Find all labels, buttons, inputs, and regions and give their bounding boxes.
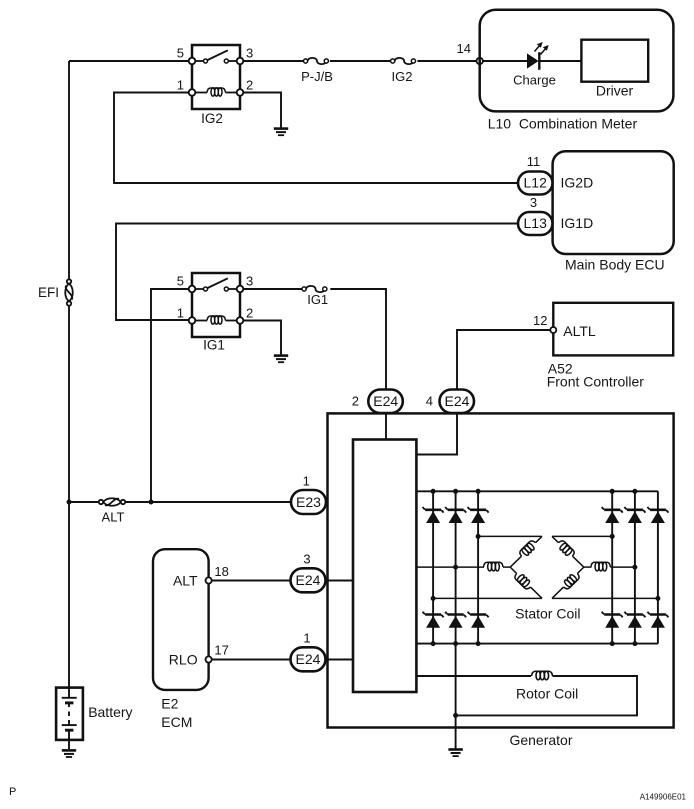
connector E23 xyxy=(291,490,326,514)
svg-text:12: 12 xyxy=(533,313,547,328)
pin 2 E24 xyxy=(352,394,359,409)
svg-text:Generator: Generator xyxy=(509,732,572,748)
wire E24 pin2 into regulator xyxy=(385,413,387,440)
wire diode column 3 left xyxy=(477,491,479,643)
pin 1 E24 lower xyxy=(303,631,310,646)
node bottom rail col1L xyxy=(431,641,436,646)
svg-text:E2: E2 xyxy=(161,696,178,712)
connector E24 pin4 xyxy=(440,390,475,414)
wire generator ground line xyxy=(455,644,457,749)
diode D6 top xyxy=(648,507,669,523)
label P-J/B xyxy=(301,69,333,84)
svg-text:IG1: IG1 xyxy=(203,338,225,353)
diode D3 top xyxy=(468,507,489,523)
wire phase rail upper left xyxy=(478,535,542,537)
svg-text:5: 5 xyxy=(177,274,184,289)
node 14 terminal xyxy=(477,58,483,64)
battery box xyxy=(56,688,83,740)
main body ECU box xyxy=(553,151,674,254)
wire A52 pin12 to E24 pin4 xyxy=(457,330,550,389)
node phase col2R xyxy=(632,565,637,570)
pin 18 xyxy=(214,564,228,579)
svg-text:A149906E01: A149906E01 xyxy=(640,793,687,802)
svg-text:Front Controller: Front Controller xyxy=(547,374,645,390)
stator coil right lower diagonal xyxy=(549,564,587,601)
label IG1D xyxy=(561,215,594,231)
wire phase rail lower right xyxy=(552,597,658,599)
wire ECM RLO to E24 pin1 xyxy=(212,659,291,661)
label Rotor Coil xyxy=(516,686,578,702)
wire diode column 1 left xyxy=(432,491,434,643)
node IG1 feed junction xyxy=(149,500,154,505)
node bottom rail col1R xyxy=(610,641,615,646)
stator coil left upper diagonal xyxy=(507,533,545,570)
svg-text:1: 1 xyxy=(303,631,310,646)
svg-text:Battery: Battery xyxy=(88,704,132,720)
diode D4 top xyxy=(602,507,623,523)
ECM box E2 xyxy=(153,549,209,690)
wire phase rail lower left xyxy=(433,597,542,599)
pin 3 xyxy=(246,46,253,61)
svg-text:L12: L12 xyxy=(524,175,548,191)
pin 2 xyxy=(246,78,253,93)
svg-text:14: 14 xyxy=(457,41,471,56)
svg-text:ALT: ALT xyxy=(102,510,125,525)
ground battery xyxy=(62,750,76,757)
fuse IG1 xyxy=(302,286,327,292)
node bottom rail col2R xyxy=(632,641,637,646)
voltage regulator box xyxy=(353,440,416,693)
wire coil to left vertex xyxy=(503,566,510,568)
svg-text:E24: E24 xyxy=(296,572,321,588)
wire L13 to IG1 pin1 xyxy=(116,224,518,321)
node top rail col2R xyxy=(632,489,637,494)
pin 12 xyxy=(533,313,547,328)
wire diode column 3 right xyxy=(657,491,659,643)
node rotor ground junction xyxy=(453,713,458,718)
relay IG1 xyxy=(189,273,244,337)
wire diode column 2 left xyxy=(455,491,457,643)
diode D8 bottom xyxy=(445,612,466,628)
connector E24 pin3 xyxy=(291,568,326,592)
svg-text:18: 18 xyxy=(214,564,228,579)
label Battery xyxy=(88,704,132,720)
label EFI xyxy=(38,285,59,300)
label ALTL xyxy=(563,323,596,339)
label A52 xyxy=(548,361,573,377)
pin 2 IG1 xyxy=(246,306,253,321)
node phase col3L xyxy=(476,534,481,539)
svg-text:3: 3 xyxy=(246,274,253,289)
svg-text:ALT: ALT xyxy=(173,573,198,589)
label ECM xyxy=(161,714,192,730)
pin 17 xyxy=(214,643,228,658)
label E2 xyxy=(161,696,178,712)
node phase col3R xyxy=(655,596,660,601)
wire E24 pin4 into regulator xyxy=(416,413,457,455)
wire ALT fusible row xyxy=(69,501,291,503)
pin 5 IG1 xyxy=(177,274,184,289)
svg-text:IG2: IG2 xyxy=(201,111,223,126)
label A149906E01 xyxy=(640,793,687,802)
node ECM pin18 xyxy=(206,577,212,583)
label IG1 fuse xyxy=(307,292,328,307)
svg-text:EFI: EFI xyxy=(38,285,59,300)
wire coil to col2R xyxy=(610,566,635,568)
diode D5 top xyxy=(625,507,646,523)
svg-text:Driver: Driver xyxy=(596,83,634,99)
A52 front controller box xyxy=(553,303,673,356)
wire phase rail upper right xyxy=(552,535,612,537)
svg-text:E24: E24 xyxy=(373,393,398,409)
node bottom rail col2L xyxy=(453,641,458,646)
svg-text:4: 4 xyxy=(426,394,433,409)
svg-text:RLO: RLO xyxy=(169,652,198,668)
svg-text:3: 3 xyxy=(303,552,310,567)
wire IG2 pin3 to combination meter xyxy=(243,60,477,62)
diode D11 bottom xyxy=(625,612,646,628)
pin 11 xyxy=(527,154,541,169)
svg-text:1: 1 xyxy=(177,78,184,93)
node top rail col1L xyxy=(431,489,436,494)
svg-text:IG2D: IG2D xyxy=(561,175,594,191)
svg-text:5: 5 xyxy=(177,46,184,61)
ground IG2 relay xyxy=(274,129,288,136)
ground IG1 relay xyxy=(274,356,288,363)
label Generator xyxy=(509,732,572,748)
wire IG2 pin1 to L12 xyxy=(114,93,518,184)
battery cells xyxy=(62,688,77,749)
fuse P-J/B xyxy=(304,58,329,64)
svg-text:E24: E24 xyxy=(296,651,321,667)
fuse IG2 xyxy=(391,58,416,64)
node phase col1R xyxy=(610,534,615,539)
ground generator xyxy=(448,750,462,757)
node A52 pin12 xyxy=(550,327,556,333)
wire rotor coil loop xyxy=(416,676,637,715)
label IG2 fuse xyxy=(392,69,413,84)
stator coil left lower diagonal xyxy=(507,564,545,601)
fusible link ALT xyxy=(99,498,125,506)
label ALT ECM xyxy=(173,573,198,589)
node top rail col1R xyxy=(610,489,615,494)
fusible link EFI xyxy=(65,279,73,305)
node battery ALT junction xyxy=(67,500,72,505)
pin 3 L13 xyxy=(530,195,537,210)
wire node14 to LED xyxy=(483,60,527,62)
pin 4 E24 xyxy=(426,394,433,409)
diode D12 bottom xyxy=(648,612,669,628)
wire diode column 2 right xyxy=(634,491,636,643)
label RLO ECM xyxy=(169,652,198,668)
diode D9 bottom xyxy=(468,612,489,628)
wire battery feed left vertical xyxy=(68,61,70,688)
svg-text:2: 2 xyxy=(246,306,253,321)
wire LED to driver xyxy=(540,60,581,62)
wire IG2 pin2 to ground xyxy=(243,93,281,129)
node phase col1L xyxy=(431,596,436,601)
wire E24 pin1 to regulator xyxy=(326,659,354,661)
svg-text:Stator Coil: Stator Coil xyxy=(515,606,580,622)
label Main Body ECU xyxy=(565,257,665,273)
svg-text:1: 1 xyxy=(177,306,184,321)
svg-text:3: 3 xyxy=(246,46,253,61)
connector L13 xyxy=(518,212,553,235)
svg-text:17: 17 xyxy=(214,643,228,658)
svg-text:1: 1 xyxy=(303,474,310,489)
pin 1 E23 xyxy=(303,474,310,489)
label P page marker xyxy=(9,786,16,798)
wire IG1 pin3 to E24 pin2 xyxy=(243,289,386,389)
wire IG1 pin2 to ground xyxy=(243,321,281,356)
combination meter box L10 xyxy=(480,10,674,112)
node phase col2L xyxy=(453,565,458,570)
node top rail col2L xyxy=(453,489,458,494)
label IG1 relay xyxy=(203,338,225,353)
svg-text:3: 3 xyxy=(530,195,537,210)
connector E24 pin1 xyxy=(291,647,326,671)
diode D7 bottom xyxy=(423,612,444,628)
label L10 Combination Meter xyxy=(488,116,638,132)
svg-text:L10 Combination Meter: L10 Combination Meter xyxy=(488,116,638,132)
driver box xyxy=(581,40,648,82)
label IG2 relay xyxy=(201,111,223,126)
pin 1 IG1 xyxy=(177,306,184,321)
svg-text:Rotor Coil: Rotor Coil xyxy=(516,686,578,702)
svg-text:E23: E23 xyxy=(296,494,321,510)
connector E24 pin2 xyxy=(368,390,403,414)
svg-text:P-J/B: P-J/B xyxy=(301,69,333,84)
svg-text:2: 2 xyxy=(352,394,359,409)
wire diode top rail xyxy=(416,490,658,492)
svg-text:P: P xyxy=(9,786,16,798)
pin 3 IG1 xyxy=(246,274,253,289)
pin 1 xyxy=(177,78,184,93)
label ALT fusible xyxy=(102,510,125,525)
svg-text:11: 11 xyxy=(527,154,541,169)
pin 3 E24 xyxy=(303,552,310,567)
stator coil left horizontal xyxy=(484,562,504,571)
relay IG2 xyxy=(189,45,244,109)
label Front Controller xyxy=(547,374,645,390)
LED charge lamp xyxy=(527,42,549,70)
connector L12 xyxy=(518,172,553,195)
wire E24 pin3 to regulator xyxy=(326,580,354,582)
diode D1 top xyxy=(423,507,444,523)
wire phase rail middle left xyxy=(416,566,484,568)
wire diode bottom rail xyxy=(416,643,658,645)
svg-text:IG1: IG1 xyxy=(307,292,328,307)
wire phase rail middle right xyxy=(584,566,592,568)
stator coil right upper diagonal xyxy=(549,533,587,570)
label IG2D xyxy=(561,175,594,191)
svg-text:L13: L13 xyxy=(524,215,548,231)
node bottom rail col3L xyxy=(476,641,481,646)
node ECM pin17 xyxy=(206,656,212,662)
generator box xyxy=(328,413,674,727)
svg-text:2: 2 xyxy=(246,78,253,93)
diode D2 top xyxy=(445,507,466,523)
pin 5 xyxy=(177,46,184,61)
wire top row to IG2 relay pin 5 xyxy=(69,60,189,62)
diode D10 bottom xyxy=(602,612,623,628)
label Charge xyxy=(513,73,556,88)
wire diode column 1 right xyxy=(611,491,613,643)
svg-text:Charge: Charge xyxy=(513,73,556,88)
stator coil right horizontal xyxy=(591,562,611,571)
label Driver xyxy=(596,83,634,99)
svg-text:ALTL: ALTL xyxy=(563,323,596,339)
label Stator Coil xyxy=(515,606,580,622)
svg-text:ECM: ECM xyxy=(161,714,192,730)
pin 14 xyxy=(457,41,471,56)
svg-text:IG1D: IG1D xyxy=(561,215,594,231)
wire ECM ALT to E24 pin3 xyxy=(212,580,291,582)
svg-text:IG2: IG2 xyxy=(392,69,413,84)
rotor coil xyxy=(532,671,553,680)
svg-text:E24: E24 xyxy=(445,393,470,409)
svg-text:Main Body ECU: Main Body ECU xyxy=(565,257,665,273)
node top rail col3L xyxy=(476,489,481,494)
wire IG1 pin5 to ALT junction xyxy=(151,289,189,502)
